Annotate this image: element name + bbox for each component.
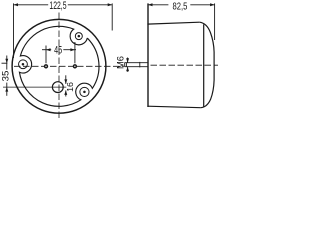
svg-text:82,5: 82,5: [173, 1, 188, 12]
svg-text:M6: M6: [115, 56, 126, 69]
svg-text:122,5: 122,5: [49, 0, 66, 12]
svg-text:16: 16: [65, 82, 75, 92]
svg-text:45: 45: [54, 44, 62, 56]
svg-text:35: 35: [1, 71, 11, 82]
